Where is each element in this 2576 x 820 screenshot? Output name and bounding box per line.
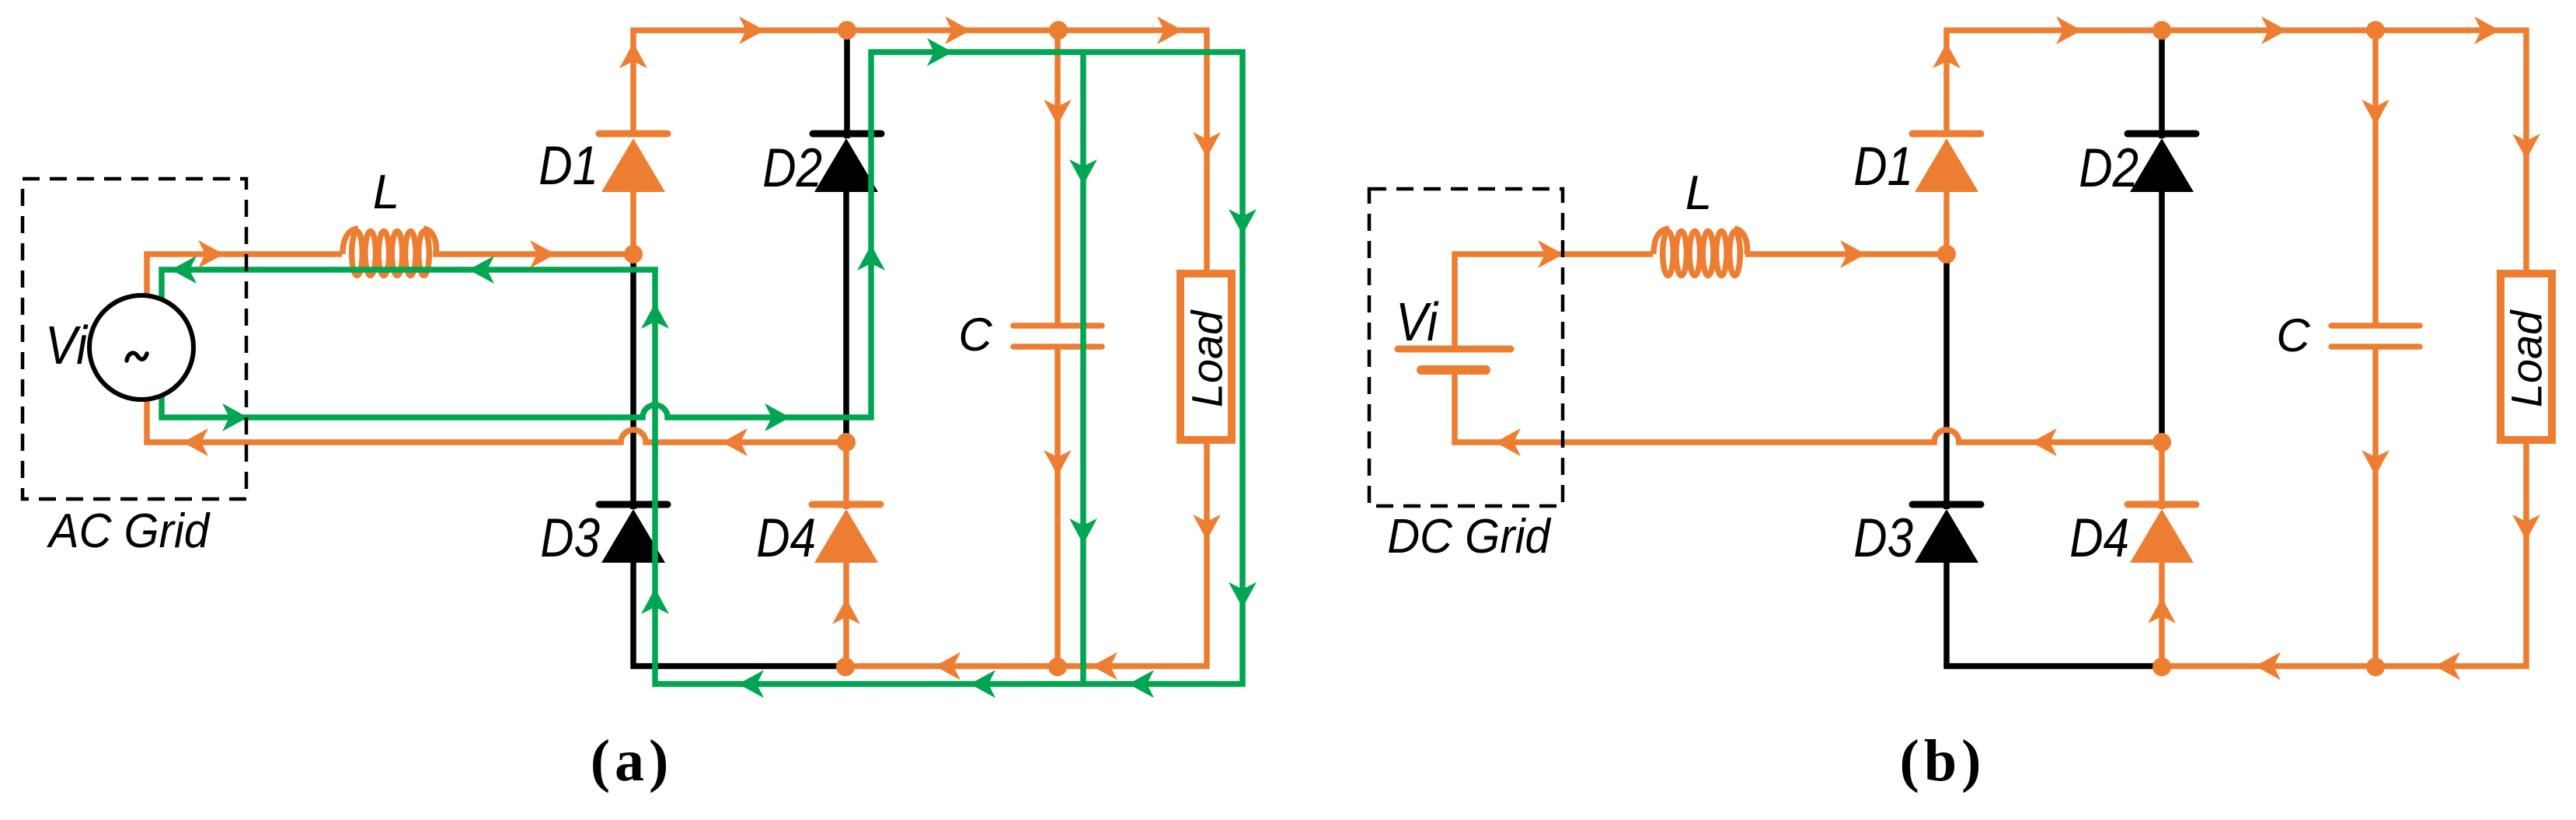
svg-text:D1: D1 bbox=[1853, 135, 1913, 197]
svg-text:L: L bbox=[373, 166, 399, 219]
svg-text:D4: D4 bbox=[2069, 507, 2129, 568]
svg-text:DC Grid: DC Grid bbox=[1387, 509, 1551, 563]
svg-text:C: C bbox=[2276, 309, 2310, 361]
svg-text:D4: D4 bbox=[756, 507, 816, 568]
svg-text:D3: D3 bbox=[1853, 507, 1913, 568]
svg-text:(a): (a) bbox=[591, 728, 674, 794]
svg-text:Load: Load bbox=[2502, 309, 2551, 407]
svg-text:D2: D2 bbox=[2079, 137, 2139, 198]
svg-text:D3: D3 bbox=[540, 507, 600, 568]
svg-text:Vi: Vi bbox=[1396, 291, 1439, 352]
svg-text:AC Grid: AC Grid bbox=[47, 504, 211, 557]
svg-text:Load: Load bbox=[1183, 309, 1232, 407]
svg-text:D1: D1 bbox=[539, 134, 598, 196]
svg-text:Vi: Vi bbox=[45, 315, 89, 375]
svg-text:(b): (b) bbox=[1900, 728, 1986, 794]
svg-text:D2: D2 bbox=[762, 137, 822, 198]
svg-text:L: L bbox=[1685, 166, 1712, 220]
svg-text:C: C bbox=[958, 309, 992, 361]
